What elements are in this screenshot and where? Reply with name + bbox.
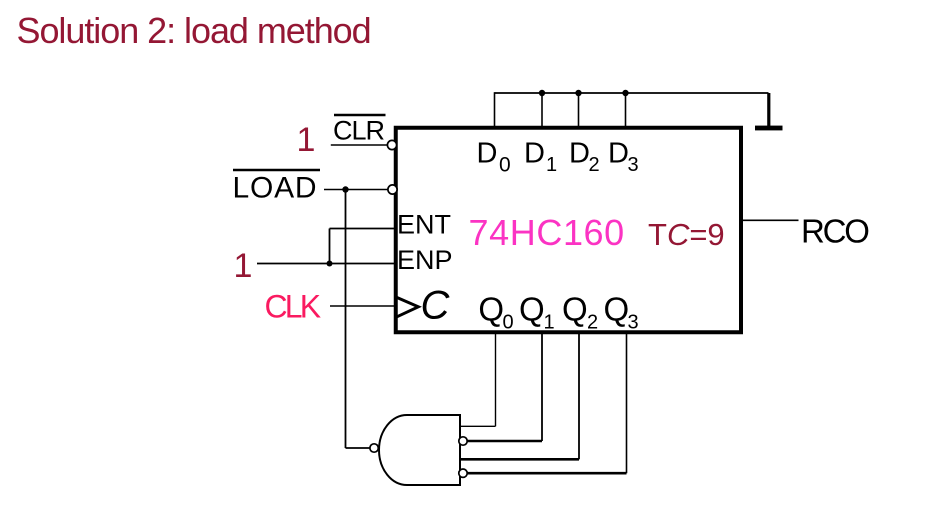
svg-text:CLR: CLR	[333, 116, 385, 146]
svg-text:2: 2	[587, 312, 598, 334]
svg-text:1: 1	[544, 312, 555, 334]
svg-text:0: 0	[503, 312, 514, 334]
svg-text:0: 0	[499, 153, 511, 176]
svg-text:1: 1	[297, 121, 316, 159]
svg-text:Q: Q	[519, 291, 545, 328]
svg-text:Q: Q	[478, 291, 504, 328]
svg-text:D: D	[477, 137, 498, 169]
svg-text:CLK: CLK	[265, 289, 321, 325]
svg-text:C: C	[421, 284, 451, 328]
svg-text:ENP: ENP	[397, 245, 453, 275]
svg-text:D: D	[524, 137, 545, 169]
svg-text:Solution 2: load method: Solution 2: load method	[17, 10, 371, 51]
svg-text:1: 1	[546, 154, 557, 176]
svg-text:ENT: ENT	[397, 210, 451, 240]
svg-text:74HC160: 74HC160	[469, 212, 625, 253]
svg-text:RCO: RCO	[801, 213, 869, 250]
svg-text:Q: Q	[604, 291, 630, 328]
svg-text:3: 3	[628, 312, 639, 334]
svg-text:D: D	[608, 137, 629, 169]
svg-text:3: 3	[628, 154, 639, 176]
svg-text:2: 2	[589, 154, 600, 176]
svg-text:Q: Q	[562, 291, 588, 328]
svg-text:1: 1	[234, 247, 253, 285]
svg-text:LOAD: LOAD	[233, 172, 318, 205]
svg-text:TC=9: TC=9	[648, 217, 725, 252]
svg-text:D: D	[569, 137, 590, 169]
